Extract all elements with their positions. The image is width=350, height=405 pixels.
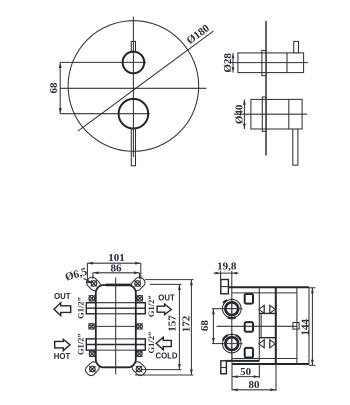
square port bottom: [245, 348, 253, 358]
top stub: [221, 280, 229, 294]
body vertical centerline: [115, 278, 117, 375]
square port middle: [245, 322, 253, 332]
svg-text:157: 157: [166, 315, 178, 332]
dimension 157: [150, 283, 182, 285]
horizontal centerline plate: [60, 87, 206, 89]
Ø28 top stub: [294, 41, 299, 53]
svg-text:86: 86: [111, 262, 123, 274]
svg-text:OUT: OUT: [158, 293, 175, 302]
trim plate circle Ø180: [68, 21, 199, 152]
Ø40 knob horizontal centerline: [234, 113, 307, 115]
flow triangles upper: [259, 305, 275, 314]
diagonal section line: [78, 31, 214, 131]
upper right port: [136, 303, 146, 314]
dimension 50: [231, 353, 233, 391]
Ø40 knob inner line: [288, 99, 290, 129]
svg-text:19,8: 19,8: [217, 261, 237, 273]
dimension 172: [145, 279, 194, 281]
bottom-right mounting lug: [130, 360, 147, 377]
top knob lever stub: [131, 41, 135, 52]
OUT left arrow: [54, 303, 71, 316]
clip notch on right section: [293, 323, 299, 330]
screw bosses with cross marks: [89, 281, 143, 373]
HOT arrow: [55, 339, 70, 350]
front plate line: [231, 271, 233, 361]
lower right port: [136, 339, 146, 350]
top knob circle: [123, 52, 145, 74]
Ø40 dimension line: [243, 99, 245, 129]
bottom stub: [221, 361, 227, 374]
lower port row lines: [86, 338, 145, 340]
Ø40 knob body: [251, 99, 302, 129]
upper port row lines: [86, 302, 145, 304]
vertical centerline: [132, 17, 134, 158]
dimension 144: [309, 287, 315, 289]
svg-text:144: 144: [299, 319, 311, 336]
bottom knob circle: [119, 99, 149, 129]
dimension 101: [87, 262, 140, 264]
Ø28 knob inner line: [286, 53, 288, 73]
body bottom edge: [226, 360, 259, 362]
svg-text:172: 172: [180, 315, 192, 332]
top-right mounting lug: [129, 275, 146, 292]
square port top: [245, 294, 253, 304]
wall centerline: [265, 21, 267, 156]
OUT right arrow: [157, 304, 171, 315]
svg-text:68: 68: [48, 82, 60, 94]
svg-text:Ø40: Ø40: [233, 104, 245, 124]
svg-text:G1/2”: G1/2”: [146, 295, 156, 317]
inner horizontals: [232, 292, 297, 294]
dimension 68: [212, 308, 223, 310]
upper left port: [86, 303, 96, 314]
svg-text:50: 50: [240, 366, 252, 378]
svg-text:80: 80: [249, 379, 261, 391]
body rounded rectangle: [96, 285, 136, 367]
bracket inner vertical: [260, 313, 262, 337]
Ø28 knob horizontal centerline: [229, 62, 309, 64]
dimension 86: [93, 272, 140, 274]
valve cartridge 2: [222, 333, 243, 355]
Ø28 dimension line: [232, 53, 234, 73]
COLD arrow: [156, 337, 171, 349]
svg-text:68: 68: [199, 320, 211, 332]
svg-text:G1/2”: G1/2”: [146, 332, 156, 354]
svg-text:OUT: OUT: [54, 292, 71, 301]
dimension 80: [275, 364, 277, 391]
dimension 19,8 outside arrows: [214, 272, 239, 274]
svg-text:G1/2”: G1/2”: [75, 297, 85, 319]
Ø28 knob body: [238, 53, 304, 73]
lower left port: [86, 339, 96, 350]
inner verticals: [258, 287, 260, 361]
dimension 68 line: [59, 62, 61, 113]
bold top segment: [106, 284, 132, 287]
body top edge: [228, 286, 309, 288]
flow triangles lower: [259, 339, 275, 348]
horizontal centerline top knob: [60, 61, 146, 63]
bottom knob lever: [131, 128, 135, 165]
svg-text:G1/2”: G1/2”: [75, 333, 85, 355]
valve cartridge 1: [222, 298, 243, 320]
Ø40 flange: [262, 97, 266, 131]
bottom-left mounting lug: [84, 360, 101, 377]
svg-text:COLD: COLD: [155, 351, 177, 360]
svg-text:Ø28: Ø28: [222, 53, 234, 73]
horizontal centerline bottom knob: [60, 113, 150, 115]
bottom lever rod: [293, 129, 298, 165]
svg-text:HOT: HOT: [54, 352, 71, 361]
top-left mounting lug: [85, 275, 102, 292]
Ø28 flange: [262, 50, 266, 75]
middle line: [96, 325, 136, 327]
